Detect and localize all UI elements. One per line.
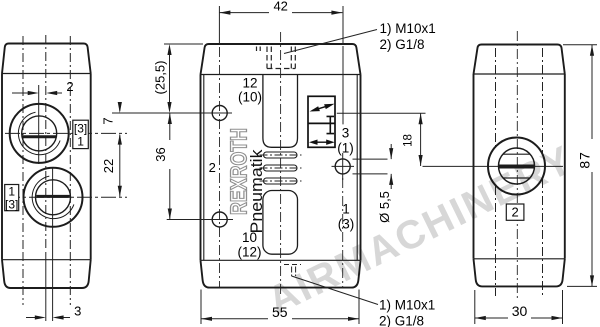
left view bottom cap line (2, 259, 91, 261)
dimension 55 (201, 290, 359, 325)
svg-text:3: 3 (342, 126, 350, 141)
dimension diameter 5,5 (353, 144, 394, 189)
svg-text:[3]: [3] (5, 197, 18, 211)
svg-text:7: 7 (101, 117, 116, 124)
svg-text:Ø 5,5: Ø 5,5 (377, 191, 392, 223)
svg-text:1) M10x1: 1) M10x1 (380, 21, 436, 36)
center view body sides inner (204, 75, 357, 261)
wire bottom port vertical centerline (52, 168, 54, 321)
mounting hole right vertical tick (342, 153, 344, 180)
svg-text:1) M10x1: 1) M10x1 (379, 298, 435, 313)
port 2 outer circle (488, 138, 545, 195)
leader line bottom M10x1 (292, 276, 379, 305)
right view body bottom cap (474, 259, 565, 287)
dimension 2 (left view top) (12, 91, 62, 95)
lamella 1 centerline (260, 154, 302, 156)
center slot lower (263, 191, 298, 255)
wire bottom port horizontal centerline (5, 196, 127, 198)
svg-text:22: 22 (101, 159, 116, 173)
port 2 inner circle (499, 148, 535, 184)
centerline body axis (45, 35, 47, 250)
left view centerlines (5, 35, 127, 321)
svg-text:1: 1 (342, 202, 350, 217)
mounting hole right middle (335, 159, 350, 174)
port 1/3 inner circle (36, 180, 71, 215)
hidden thread M10x1 top (257, 47, 296, 69)
dimension 18 (419, 113, 423, 166)
right view hidden hole centerline right (542, 48, 544, 296)
wire body axis extension for dim 3 (45, 252, 47, 321)
center view cap line (201, 74, 361, 76)
dimension (25,5) (164, 44, 203, 113)
port 2 slot (499, 165, 534, 169)
svg-text:42: 42 (273, 0, 287, 13)
svg-text:2) G1/8: 2) G1/8 (380, 37, 425, 52)
hidden thread M10x1 bottom marks (284, 265, 301, 277)
svg-text:2: 2 (511, 205, 518, 220)
svg-text:87: 87 (577, 151, 593, 168)
dimension 22 (left view right side) (118, 186, 122, 197)
svg-text:12: 12 (242, 76, 257, 91)
watermark (261, 137, 580, 323)
wire top port vertical centerline (38, 85, 40, 164)
valve symbol bottom box blocked port T (327, 123, 335, 133)
port 3/1 inner circle (22, 116, 57, 151)
svg-text:10: 10 (242, 230, 257, 245)
center view vertical axis centerline (280, 32, 282, 296)
valve symbol 3/2 (308, 96, 335, 147)
svg-text:2: 2 (209, 160, 216, 175)
right view vertical axis centerline (516, 31, 518, 301)
lamella slot 2 (264, 165, 298, 171)
left view body top cap (2, 44, 91, 74)
svg-text:2) G1/8: 2) G1/8 (379, 314, 424, 327)
dimension 36 (167, 113, 233, 220)
center slot upper (263, 75, 298, 255)
left view body sides (2, 74, 91, 260)
svg-text:(25,5): (25,5) (153, 61, 168, 95)
port 1/3 thread arc (32, 176, 74, 219)
svg-text:(3): (3) (338, 217, 355, 232)
svg-text:3: 3 (74, 304, 81, 319)
svg-text:[3]: [3] (74, 121, 87, 135)
center view body top cap (201, 44, 361, 75)
svg-text:55: 55 (272, 304, 288, 320)
svg-text:18: 18 (403, 134, 415, 147)
center view body sides outer (201, 75, 361, 261)
valve symbol bottom box exhaust arrow (314, 141, 330, 143)
right view bottom cap line (474, 258, 565, 260)
centerline hidden hole right (69, 36, 71, 305)
lamella slot 3 (264, 178, 298, 184)
dimension 87 (563, 45, 597, 287)
port 3/1 thread arc (18, 112, 60, 155)
mounting hole centerline vertical left (219, 47, 221, 288)
lamella 3 centerline (260, 180, 302, 182)
svg-text:1: 1 (77, 135, 84, 149)
svg-text:(1): (1) (337, 141, 354, 156)
port 1/3 outer circle (24, 168, 83, 227)
center view bottom cap line (201, 259, 361, 261)
svg-text:30: 30 (512, 303, 528, 319)
right view body top cap (474, 45, 565, 75)
wire top port horizontal centerline (5, 132, 127, 134)
port 3/1 outer circle (10, 104, 69, 163)
port 3 line from valve symbol (337, 112, 426, 114)
dimension 30 (475, 290, 563, 324)
dimension 3 (left view bottom) (26, 315, 70, 319)
port 1/3 slot (36, 195, 70, 198)
lamella slot 1 (264, 152, 298, 184)
left view ports (10, 104, 83, 227)
right view cap line (474, 73, 565, 75)
svg-text:(10): (10) (238, 90, 262, 105)
port 2 chord bottom (503, 177, 530, 179)
label box port 2 (506, 204, 524, 220)
valve symbol top box blocked port T (327, 116, 335, 123)
label box port top [3] 1 (73, 120, 89, 148)
mounting hole right horizontal tick (332, 165, 355, 167)
center view body bottom cap (201, 260, 361, 287)
svg-text:36: 36 (153, 147, 168, 161)
right view hidden hole centerline left (495, 48, 497, 296)
label box port bottom 1 [3] (5, 185, 19, 212)
svg-text:(12): (12) (237, 245, 261, 260)
dimension 42 (219, 11, 342, 15)
leader line top M10x1 (284, 30, 377, 54)
valve symbol top box flow arrow (313, 105, 332, 111)
svg-text:Pneumatik: Pneumatik (248, 149, 266, 234)
port 3/1 slot (23, 135, 57, 138)
left view body bottom cap (2, 260, 91, 288)
centerline hidden hole left (22, 36, 24, 305)
mounting hole bottom left (212, 212, 227, 227)
lamella 2 centerline (260, 167, 302, 169)
port 2 horizontal centerline (423, 165, 564, 167)
mounting hole right centerline lower (342, 178, 344, 288)
dimension 7 (left view right side) (112, 102, 232, 197)
port 2 chord top (503, 153, 530, 155)
42-dim extension line left (218, 6, 220, 44)
mounting hole top left (212, 106, 350, 228)
left view cap line (2, 73, 91, 75)
right view body sides (474, 74, 565, 259)
42-dim extension line right / port 3 leader (342, 6, 344, 124)
svg-text:2: 2 (66, 79, 73, 94)
